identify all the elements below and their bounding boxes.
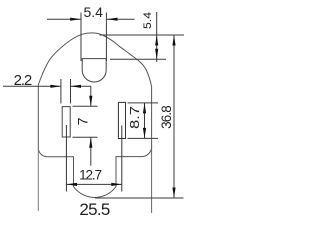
dim line 12.7: [67, 183, 122, 185]
svg-text:36.8: 36.8: [159, 106, 174, 129]
right tail of 5.4 top: [107, 18, 135, 20]
part outline: [38, 33, 151, 198]
ground slot (U shape): [82, 59, 106, 82]
dimension 5.4 top: [47, 13, 135, 62]
ext line slot top 8.7: [128, 102, 159, 104]
arrowhead right 12.7: [111, 183, 122, 186]
right pin slot: [118, 102, 125, 138]
arrowhead right 5.4 top: [107, 18, 118, 21]
ext line slot bottom 7: [73, 136, 98, 138]
arrowhead down 7: [89, 96, 92, 107]
arrowhead left 12.7: [67, 183, 78, 186]
arrowhead up 5.4 right: [155, 35, 158, 46]
ext line left of 5.4 top: [80, 13, 82, 62]
arrowhead right 2.2: [71, 85, 82, 88]
dimension 2.2: [3, 79, 91, 104]
dimension 5.4 right (vertical): [100, 12, 184, 62]
left tail of 5.4 top: [47, 18, 81, 20]
right edge extension line: [151, 146, 153, 213]
arrowhead down 8.7: [143, 128, 146, 138]
left edge extension line: [37, 148, 39, 211]
dimension 36.8: [95, 35, 184, 198]
ext line apex level: [100, 34, 184, 36]
left slot centerline: [65, 125, 67, 192]
arrowhead down 36.8: [172, 188, 175, 199]
svg-text:5.4: 5.4: [142, 12, 154, 29]
right tail 2.2: [71, 85, 91, 87]
ext line slot bottom 8.7: [128, 137, 159, 139]
svg-text:25.5: 25.5: [79, 200, 110, 219]
svg-text:12.7: 12.7: [79, 168, 101, 183]
dim line 7 lower: [90, 137, 92, 165]
ext tick right 2.2: [70, 79, 72, 104]
ext line slot-top level: [110, 58, 166, 60]
ext tick left 2.2: [60, 79, 62, 104]
arrowhead up 7: [89, 137, 92, 148]
ext line slot top 7: [73, 105, 98, 107]
right slot centerline: [121, 125, 123, 191]
left tail 2.2: [3, 85, 61, 87]
dim line 36.8: [173, 35, 175, 198]
ext line bottom 36.8: [95, 197, 184, 199]
dim line 7 upper: [90, 86, 92, 106]
dimension 12.7: [67, 183, 122, 185]
arrowhead down 5.4 right: [155, 49, 158, 60]
svg-text:5.4: 5.4: [83, 4, 103, 20]
svg-text:8.7: 8.7: [128, 106, 142, 129]
arrowhead up 8.7: [143, 103, 146, 114]
left pin slot: [62, 107, 70, 137]
svg-text:7: 7: [75, 117, 91, 125]
dim line 8.7: [144, 103, 146, 138]
arrowhead left 2.2: [50, 85, 61, 88]
arrowhead left 5.4 top: [70, 18, 81, 21]
ext line right of 5.4 top: [105, 13, 107, 62]
dimension 7: [73, 86, 98, 165]
dimension 8.7: [128, 103, 159, 138]
dim line 5.4 right: [156, 12, 158, 62]
arrowhead up 36.8: [172, 35, 175, 46]
svg-text:2.2: 2.2: [14, 72, 32, 89]
